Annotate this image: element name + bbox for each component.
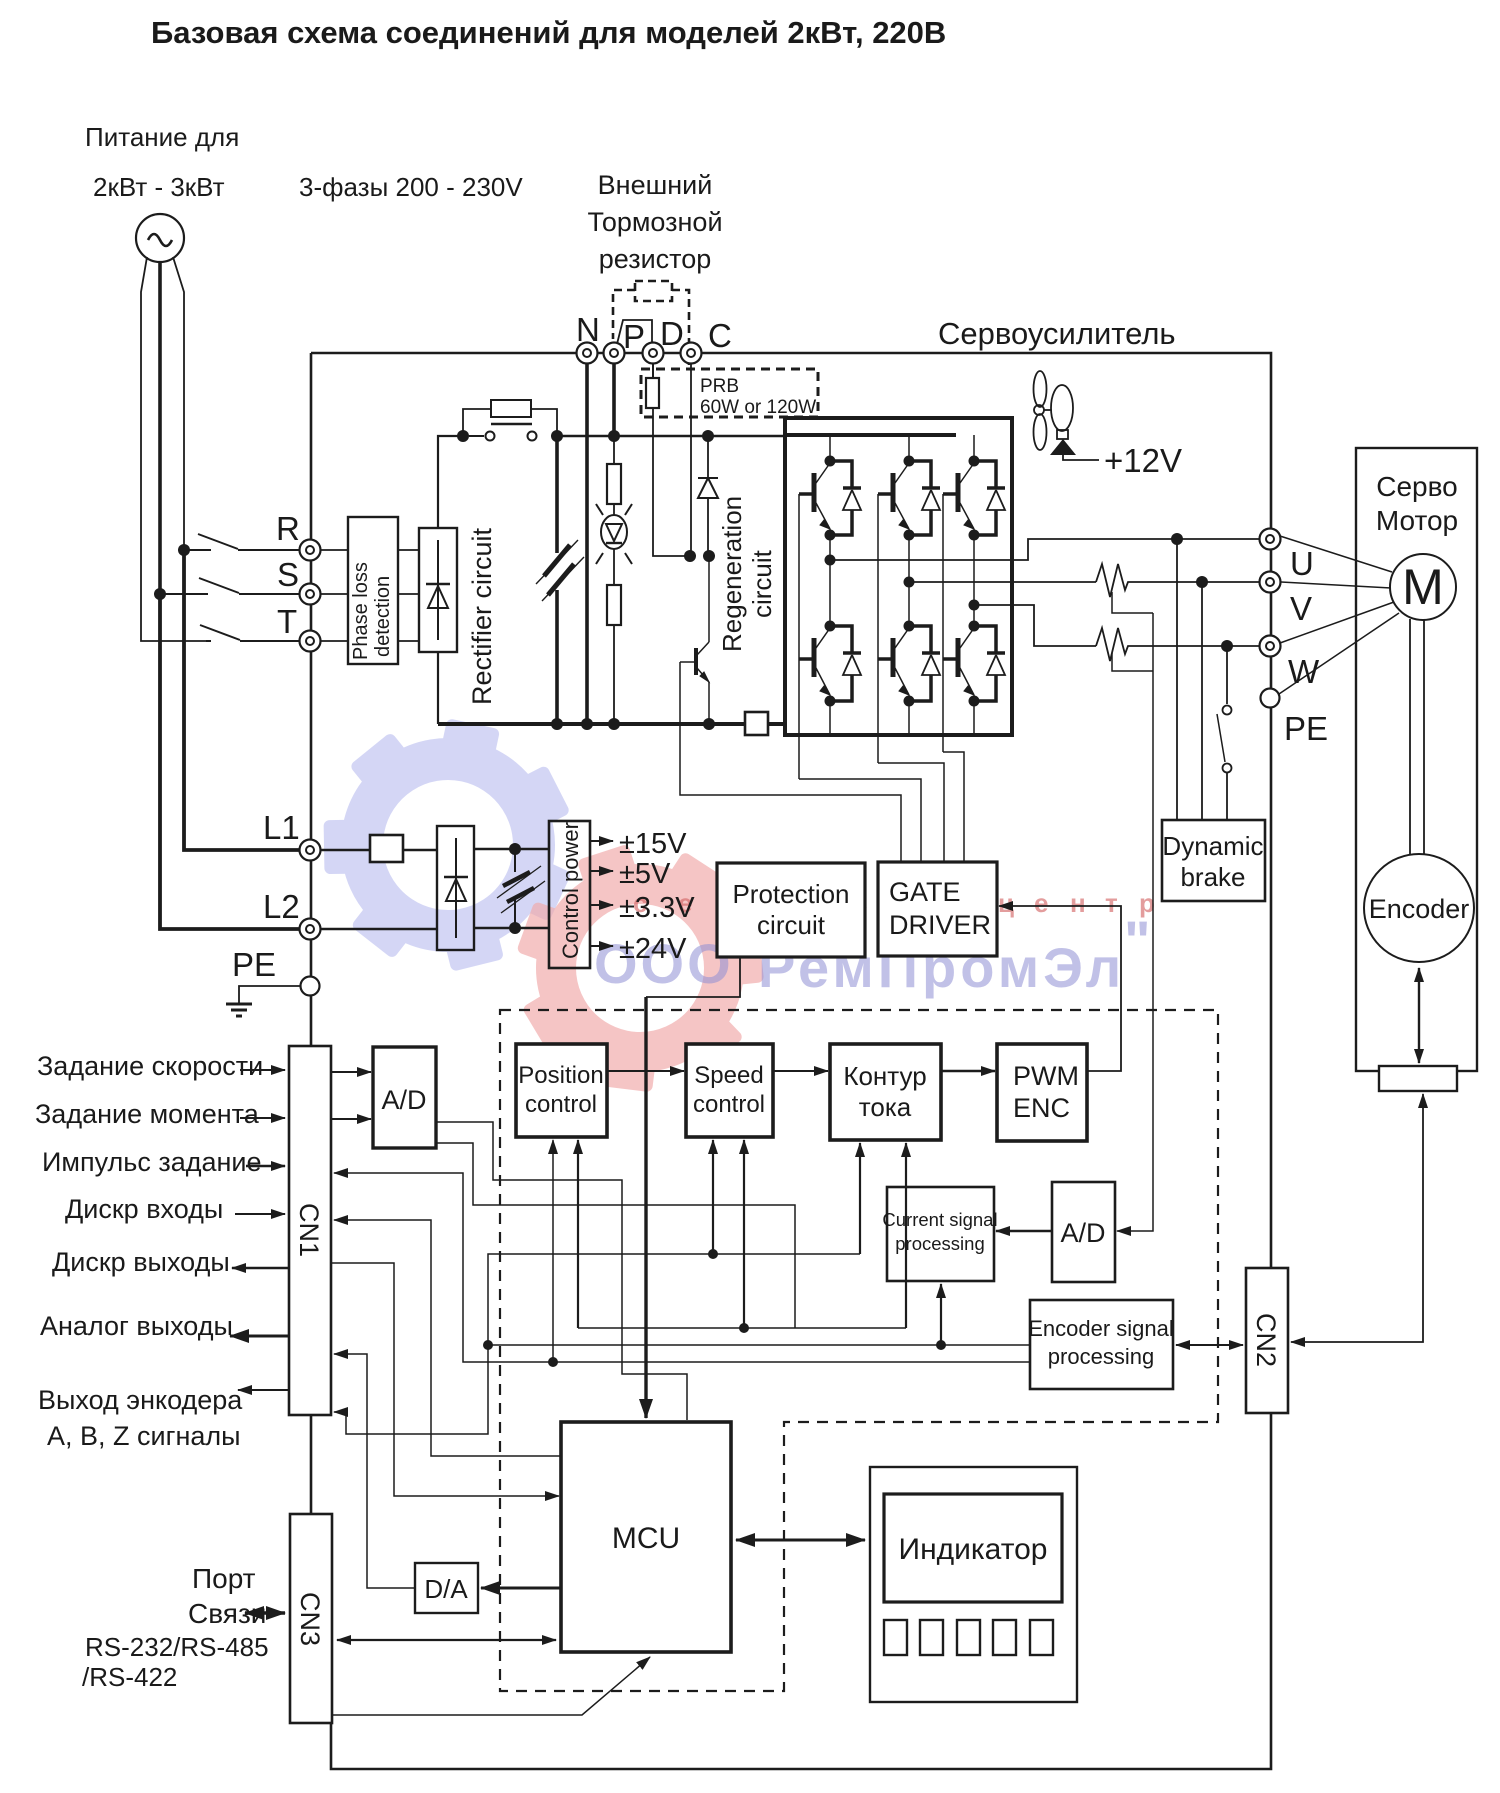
svg-text:Контур: Контур — [843, 1061, 926, 1091]
output +24V — [590, 945, 613, 947]
svg-text:R: R — [276, 510, 300, 547]
svg-text:S: S — [277, 556, 299, 593]
svg-text:PWM: PWM — [1013, 1061, 1079, 1091]
CN1 connector box — [289, 1046, 331, 1415]
node regen emitter top — [703, 550, 715, 562]
motor leads U V W PE — [1280, 536, 1392, 572]
arrow speed to current loop — [773, 1070, 828, 1072]
relay contact — [469, 435, 484, 437]
transistor Q1 (upper IGBT with diode) — [799, 456, 861, 541]
MCU box — [561, 1422, 731, 1652]
feedback line encoder to left — [488, 1344, 1030, 1346]
double arrow MCU to indicator — [736, 1539, 865, 1542]
svg-text:Индикатор: Индикатор — [899, 1533, 1048, 1566]
node regen diode top — [702, 430, 714, 442]
terminal C — [681, 343, 702, 364]
node W dyn brake tap — [1221, 640, 1233, 652]
dyn brake switch — [1226, 646, 1228, 704]
wire ESP to pulse feedback — [553, 1361, 1030, 1363]
fuse F1 — [370, 835, 403, 862]
control rectifier diode — [444, 838, 468, 938]
servo amplifier outer box — [311, 353, 1271, 1769]
svg-text:Encoder: Encoder — [1369, 894, 1470, 924]
svg-text:": " — [1124, 909, 1151, 972]
svg-text:ц: ц — [998, 888, 1014, 918]
resistor PRB internal on D line — [652, 364, 654, 378]
svg-text:Rectifier circuit: Rectifier circuit — [467, 527, 497, 705]
svg-text:Сервоусилитель: Сервоусилитель — [938, 316, 1176, 351]
svg-text:Protection: Protection — [732, 879, 849, 909]
protection circuit box — [717, 863, 865, 957]
arrow out CN1 encoder out — [238, 1389, 289, 1391]
node P on rail — [608, 430, 620, 442]
node bus regen emitter — [703, 718, 715, 730]
wire P down to rail — [612, 364, 616, 436]
svg-text:circuit: circuit — [757, 910, 826, 940]
wires PLD to rectifier — [398, 550, 419, 641]
arrow into current signal processing bottom — [940, 1284, 942, 1345]
transistor Q5 (lower IGBT with diode) — [878, 621, 940, 707]
wire connector to CN2 — [1291, 1094, 1423, 1342]
DC link vertical with capacitor — [555, 436, 559, 553]
wire W phase from bridge — [974, 605, 1096, 646]
svg-text:M: M — [1402, 559, 1444, 615]
arrow into CN1 digital in — [235, 1213, 285, 1215]
svg-text:control: control — [525, 1091, 597, 1118]
svg-text:+12V: +12V — [1104, 442, 1182, 479]
svg-text:±3.3V: ±3.3V — [619, 892, 695, 924]
external brake resistor dashed box — [635, 281, 672, 301]
regen diode D3 — [707, 436, 709, 478]
terminal U — [1260, 529, 1281, 550]
node feedback left — [483, 1340, 493, 1350]
svg-text:CN1: CN1 — [294, 1203, 324, 1257]
main rectifier box — [419, 528, 457, 652]
svg-text:CN2: CN2 — [1251, 1313, 1281, 1367]
svg-text:PRB: PRB — [700, 376, 739, 397]
arrow out CN1 digital out — [232, 1267, 289, 1269]
A/D out to position loop distribution — [436, 1143, 795, 1328]
svg-text:DRIVER: DRIVER — [889, 910, 991, 940]
svg-text:processing: processing — [895, 1233, 984, 1254]
svg-text:D/A: D/A — [424, 1574, 468, 1604]
transistor Q4 (lower IGBT with diode) — [799, 621, 861, 707]
svg-text:L2: L2 — [263, 888, 300, 925]
encoder signal processing box — [1030, 1300, 1173, 1389]
fan supply triangle — [1050, 439, 1076, 455]
CN3 connector box — [290, 1514, 332, 1723]
svg-text:PE: PE — [232, 946, 276, 983]
svg-text:Выход энкодера: Выход энкодера — [38, 1385, 243, 1415]
svg-text:резистор: резистор — [599, 244, 712, 274]
pulse feedback line CN1/position — [334, 1140, 553, 1362]
node DC+ — [551, 430, 563, 442]
svg-text:Тормозной: Тормозной — [587, 207, 722, 237]
double arrow port to CN3 — [245, 1611, 285, 1614]
phase loss detection box — [348, 517, 398, 664]
relay inrush: riser from rectifier — [438, 436, 463, 528]
node trafo top — [509, 843, 521, 855]
DC- bus — [438, 722, 785, 726]
wire L1 to fuse — [321, 849, 370, 851]
double arrow ESP to CN2 — [1176, 1344, 1243, 1346]
svg-text:/RS-422: /RS-422 — [82, 1662, 177, 1692]
regen IGBT Q7 — [708, 556, 710, 642]
svg-text:Базовая схема соединений для м: Базовая схема соединений для моделей 2кВ… — [151, 15, 946, 50]
svg-text:т: т — [1105, 888, 1118, 918]
wire rect to transformer top — [474, 848, 549, 850]
svg-text:CN3: CN3 — [295, 1592, 325, 1646]
terminal T — [300, 631, 321, 652]
arrow into speed control bottom 2 — [743, 1140, 745, 1328]
terminal L2 — [300, 919, 321, 940]
node: S switch junction — [154, 588, 166, 600]
svg-text:L1: L1 — [263, 809, 300, 846]
arrow into position control bottom 2 — [577, 1140, 579, 1328]
watermark red spaced text "сервисный центр" — [633, 888, 1155, 918]
svg-text:Задание скорости: Задание скорости — [37, 1051, 263, 1081]
svg-text:Dynamic: Dynamic — [1162, 831, 1263, 861]
svg-text:A/D: A/D — [1060, 1218, 1105, 1248]
watermark blue company text — [594, 909, 1151, 999]
svg-text:60W or 120W: 60W or 120W — [700, 397, 816, 418]
wire col 974 mid — [973, 535, 975, 735]
transistor Q6 (lower IGBT with diode) — [943, 621, 1005, 707]
arrow into current loop bottom 1 — [859, 1143, 861, 1254]
motor shaft — [1410, 619, 1424, 855]
encoder connector box — [1379, 1066, 1457, 1091]
control dashed box — [500, 1010, 1218, 1691]
double arrow CN3 to MCU — [337, 1639, 556, 1641]
svg-text:Speed: Speed — [694, 1062, 763, 1089]
terminal R — [300, 540, 321, 561]
svg-text:RS-232/RS-485: RS-232/RS-485 — [85, 1632, 269, 1662]
svg-text:V: V — [1290, 590, 1312, 627]
fan symbol — [1034, 371, 1074, 450]
main rectifier diode — [426, 540, 450, 640]
wire col 830 mid — [829, 535, 831, 735]
svg-text:Аналог выходы: Аналог выходы — [40, 1311, 233, 1341]
svg-text:PE: PE — [1284, 710, 1328, 747]
svg-text:processing: processing — [1048, 1344, 1154, 1369]
feedback branch down to CN1 encoder out — [334, 1345, 488, 1434]
node bus LED branch — [608, 718, 620, 730]
bridge top bus — [785, 433, 956, 437]
wire: AC right lead down to R junction — [173, 257, 184, 550]
svg-text:control: control — [693, 1091, 765, 1118]
A/D converter box left — [373, 1047, 436, 1148]
output +5V — [590, 870, 613, 872]
arrow A/D to current signal processing — [996, 1230, 1052, 1232]
gate rails — [799, 494, 943, 779]
servo motor box — [1356, 448, 1477, 1071]
wire CN3 diagonal to MCU bottom — [332, 1657, 650, 1715]
svg-text:н: н — [1070, 888, 1086, 918]
indicator buttons — [884, 1620, 1053, 1655]
bridge column stubs top — [830, 435, 974, 461]
svg-text:Дискр выходы: Дискр выходы — [52, 1247, 230, 1277]
wire to +12V — [1063, 455, 1099, 460]
wire rectifier bottom to bus — [437, 652, 439, 724]
svg-text:D: D — [660, 315, 684, 352]
AC source G1 — [136, 214, 184, 262]
node speed tap — [708, 1249, 718, 1259]
LED D2 — [613, 504, 615, 516]
svg-text:3-фазы 200 - 230V: 3-фазы 200 - 230V — [299, 172, 523, 202]
terminal S — [300, 584, 321, 605]
LED charge indicator branch: resistor R2 — [613, 436, 615, 464]
node pulse feedback — [548, 1357, 558, 1367]
wire D down to regen node — [653, 408, 690, 556]
arrow into CN1 pulse — [246, 1165, 285, 1167]
capacitor C1 plates — [536, 540, 584, 601]
discrete inputs CN1 to MCU — [331, 1263, 559, 1496]
switch S1 phase R — [184, 534, 300, 550]
svg-text:Phase loss: Phase loss — [350, 562, 372, 660]
transistor Q2 (upper IGBT with diode) — [878, 456, 940, 541]
wire fuse to control rectifier — [403, 849, 437, 851]
current sensor W (zigzag) — [1096, 628, 1260, 661]
svg-text:А, В, Z сигналы: А, В, Z сигналы — [47, 1421, 241, 1451]
node csp tap — [936, 1340, 946, 1350]
arrow into CN1 speed — [240, 1069, 285, 1071]
wire D/A to CN1 analog — [334, 1354, 415, 1588]
arrow position to speed — [607, 1070, 684, 1072]
ground symbol — [226, 1004, 252, 1016]
svg-text:Current signal: Current signal — [882, 1209, 997, 1230]
output +15V — [590, 840, 613, 842]
node distribution — [739, 1323, 749, 1333]
indicator panel outer box — [870, 1467, 1077, 1702]
node V dyn brake tap — [1196, 576, 1208, 588]
watermark red gear — [469, 798, 811, 1138]
CN2 connector box — [1246, 1268, 1288, 1413]
sense tap W — [1112, 653, 1153, 671]
svg-text:Дискр входы: Дискр входы — [65, 1194, 223, 1224]
svg-text:Порт: Порт — [192, 1563, 256, 1594]
transistor Q3 (upper IGBT with diode) — [943, 456, 1005, 541]
svg-text:MCU: MCU — [612, 1522, 680, 1555]
terminal D — [643, 343, 664, 364]
svg-text:U: U — [1290, 545, 1314, 582]
watermark blue gear — [298, 697, 598, 992]
shunt resistor on bus — [745, 712, 768, 735]
svg-text:2кВт - 3кВт: 2кВт - 3кВт — [93, 172, 225, 202]
svg-text:T: T — [277, 603, 297, 640]
wire: S junction down to L2 row (thick) — [160, 594, 299, 929]
svg-text:detection: detection — [372, 576, 394, 657]
position control box — [516, 1044, 607, 1137]
speed control box — [686, 1044, 773, 1137]
arrow current loop to PWM — [941, 1070, 995, 1072]
regen gate wire to gate driver — [680, 662, 901, 862]
feedback branch up to speed/current arrows — [488, 1254, 860, 1345]
IGBT bridge outer box — [785, 418, 1012, 735]
motor M circle — [1390, 554, 1456, 620]
arrow MCU to D/A — [481, 1587, 561, 1590]
dynamic brake box — [1162, 820, 1265, 901]
arrow into CN1 torque — [240, 1117, 285, 1119]
svg-text:±24V: ±24V — [619, 933, 687, 965]
node bus DC+ drop — [551, 718, 563, 730]
svg-text:Питание для: Питание для — [85, 122, 239, 152]
wire C down to regen node — [690, 364, 692, 556]
discrete outputs MCU to CN1 — [334, 1220, 562, 1456]
svg-text:±15V: ±15V — [619, 828, 687, 860]
node relay left — [457, 430, 469, 442]
node bus N — [581, 718, 593, 730]
svg-text:тока: тока — [859, 1092, 912, 1122]
D/A converter box — [415, 1563, 478, 1613]
svg-text:A/D: A/D — [381, 1085, 426, 1115]
A/D out2 staircase to MCU — [436, 1122, 687, 1420]
svg-text:Encoder signal: Encoder signal — [1028, 1316, 1174, 1341]
svg-text:ENC: ENC — [1013, 1093, 1070, 1123]
sense tap V — [1112, 592, 1153, 613]
svg-text:Control power: Control power — [558, 822, 583, 959]
wire: AC left lead down to T row — [141, 257, 206, 641]
current sensor V (zigzag) — [1096, 564, 1260, 597]
terminal N — [577, 343, 598, 364]
arrow out CN1 analog out — [230, 1335, 289, 1338]
terminal W — [1260, 636, 1281, 657]
node trafo bottom — [509, 922, 521, 934]
svg-text:е: е — [1034, 888, 1048, 918]
sense line down to A/D — [1117, 613, 1153, 1231]
output +3.3V — [590, 904, 613, 906]
dashed wire ext resistor to C — [672, 290, 689, 365]
wire U tap to dynamic brake — [1176, 539, 1178, 820]
node D/C join — [684, 550, 696, 562]
arrow into current loop bottom 2 — [905, 1143, 907, 1328]
gate staircase wires to gate driver — [799, 752, 964, 862]
encoder ellipse — [1364, 854, 1474, 962]
control rectifier box — [437, 826, 474, 950]
svg-text:Regeneration: Regeneration — [717, 496, 747, 652]
switch S3 phase T — [200, 625, 300, 641]
wire protection to MCU (thick) — [646, 957, 740, 997]
wire PWM to gate driver — [999, 906, 1121, 1071]
svg-text:Импульс задание: Импульс задание — [42, 1147, 262, 1177]
node U output — [825, 555, 836, 566]
wire U phase from bridge — [830, 539, 1260, 560]
node W output — [969, 600, 980, 611]
control power box — [549, 821, 590, 968]
wires R S T to phase loss detection — [321, 550, 348, 641]
wire col 909 mid — [908, 535, 910, 735]
wire N down to bus — [585, 364, 589, 724]
current signal processing box — [887, 1187, 994, 1281]
distribution line — [578, 1327, 906, 1329]
wire V phase from bridge — [909, 581, 1096, 583]
wire PE to ground — [239, 986, 300, 1004]
node: R switch junction — [178, 544, 190, 556]
svg-text:Серво: Серво — [1376, 471, 1458, 502]
terminal V — [1260, 572, 1281, 593]
switch S2 phase S — [160, 578, 300, 594]
node U dyn brake tap — [1171, 533, 1183, 545]
svg-text:Задание момента: Задание момента — [35, 1099, 260, 1129]
wire V tap to dynamic brake — [1201, 582, 1203, 820]
wire rect to transformer bottom — [474, 927, 549, 929]
wire: AC middle lead down to S junction — [158, 262, 162, 594]
wire L2 to control rectifier — [321, 928, 437, 930]
terminal P — [604, 343, 625, 364]
svg-text:circuit: circuit — [747, 549, 777, 618]
svg-text:±5V: ±5V — [619, 858, 671, 890]
arrow into speed control bottom 1 — [712, 1140, 714, 1254]
svg-text:brake: brake — [1180, 862, 1245, 892]
gate driver box — [878, 862, 997, 956]
svg-text:Внешний: Внешний — [598, 170, 713, 200]
jumper bar P-D — [617, 320, 652, 344]
svg-text:Position: Position — [518, 1062, 603, 1089]
current loop box — [830, 1044, 941, 1140]
PRB dashed box — [641, 369, 818, 417]
PWM ENC box — [997, 1044, 1087, 1141]
node V output — [904, 577, 915, 588]
terminal L1 — [300, 840, 321, 861]
svg-text:C: C — [708, 317, 732, 354]
svg-text:Мотор: Мотор — [1376, 505, 1458, 536]
terminal PE left — [301, 977, 320, 996]
svg-text:P: P — [623, 318, 645, 355]
transformer T1 — [514, 849, 516, 928]
terminal PE right — [1261, 689, 1280, 708]
double arrow encoder to connector — [1418, 968, 1420, 1063]
DC+ rail to bridge — [557, 435, 785, 437]
resistor R3 — [613, 549, 615, 585]
svg-text:GATE: GATE — [889, 877, 961, 907]
relay bypass resistor — [463, 409, 491, 436]
arrows CN1 to A/D — [331, 1071, 371, 1073]
A/D converter box right — [1052, 1182, 1115, 1282]
indicator display box — [884, 1494, 1062, 1602]
wire: R junction down to L1 row (thick) — [184, 550, 299, 850]
dashed wire ext resistor to P — [613, 290, 635, 339]
